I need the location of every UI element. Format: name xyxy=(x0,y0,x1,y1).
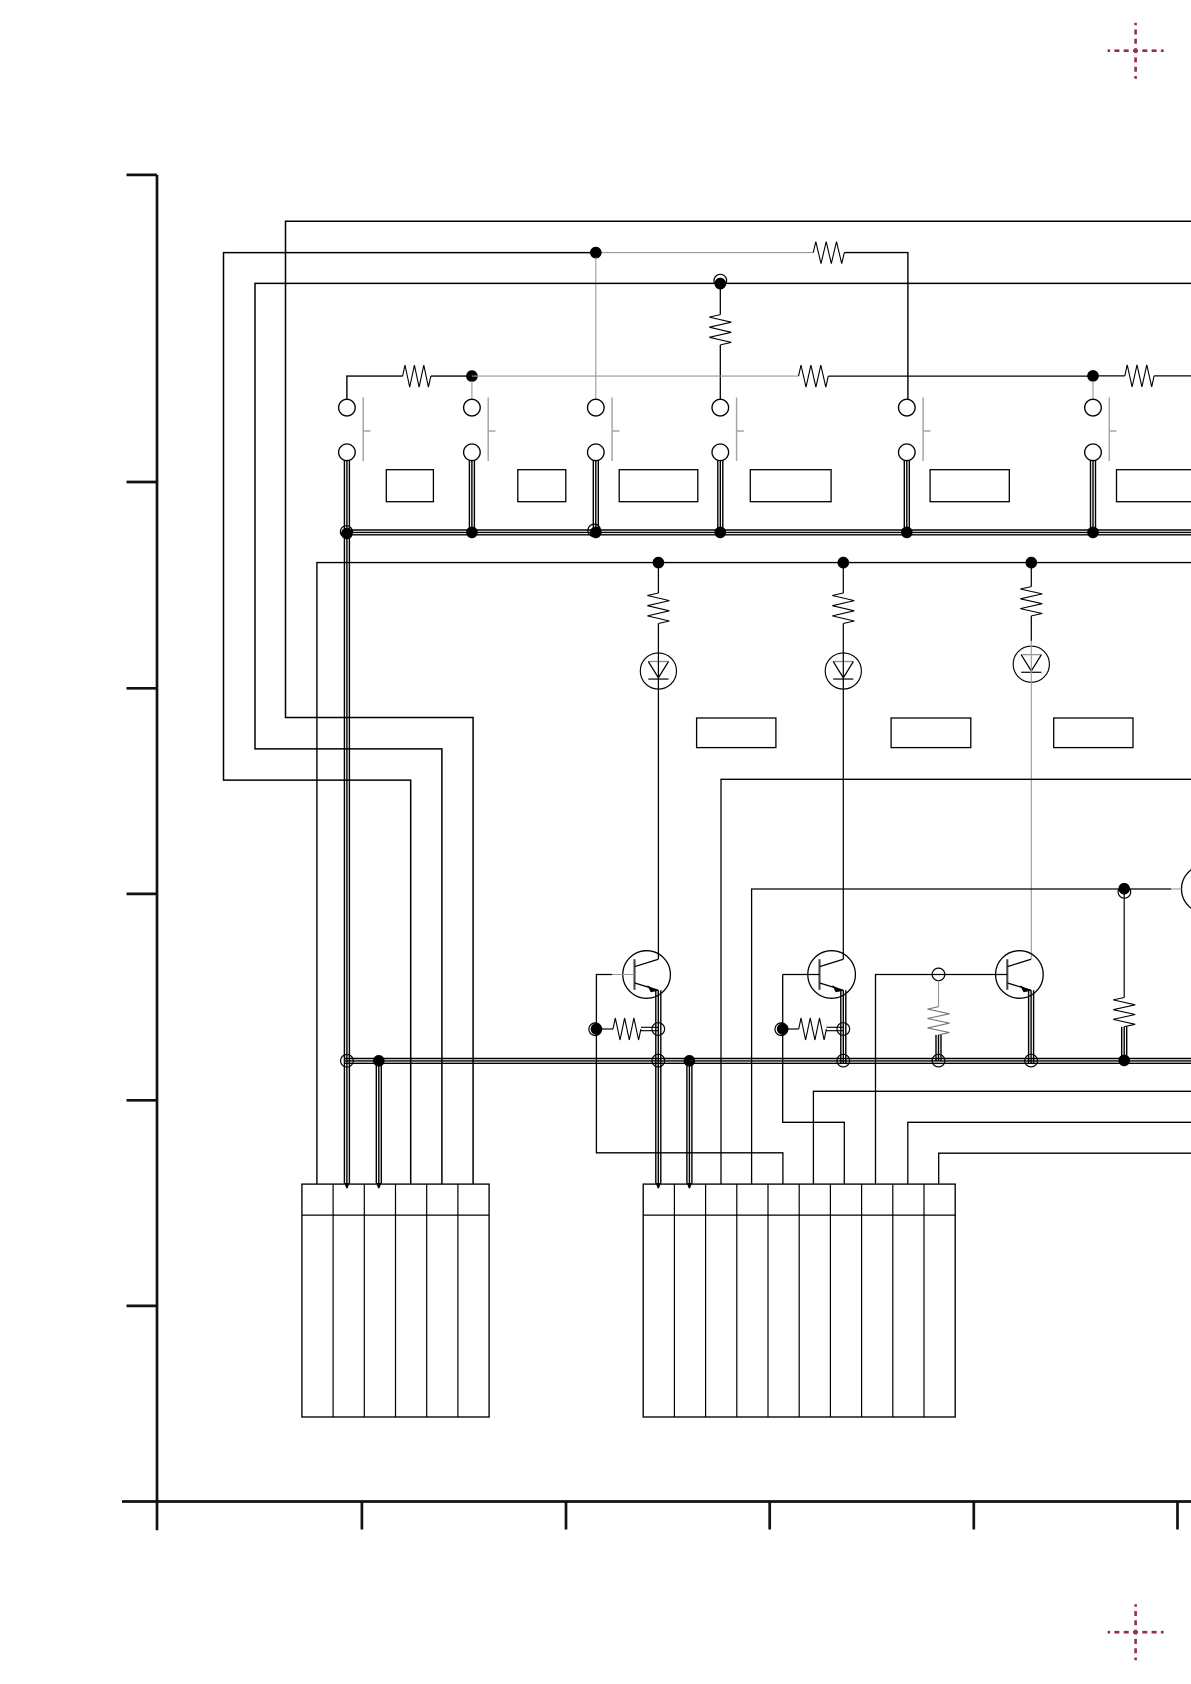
part outline box mid row 2 xyxy=(891,718,971,748)
hook CN2 pin1 wire end xyxy=(656,1183,661,1188)
wire ladder R1 to node SW2 xyxy=(431,375,472,377)
node bus / SW5 xyxy=(901,527,913,539)
wire ladder R3 to sheet edge xyxy=(1154,375,1191,377)
node junction net3 / SW4 feed xyxy=(715,278,727,290)
wire chain 1 rail to resistor xyxy=(657,563,659,593)
wire SW4 feed lower segment xyxy=(719,345,721,399)
open circle junction R13 / Q2 emitter xyxy=(837,1023,850,1036)
resistor R3 xyxy=(1125,365,1154,387)
wire ladder node to R3 xyxy=(1093,375,1125,377)
wire SW6 bottom to bus (3 lines) xyxy=(1091,461,1096,535)
node bus / SW6 xyxy=(1087,527,1099,539)
switch SW1 bottom contact xyxy=(339,444,356,461)
wire SW3 bottom to bus (3 lines) xyxy=(593,461,598,535)
switch SW2 top contact xyxy=(464,399,481,416)
transistor Q1 collector lead xyxy=(635,959,659,966)
wire net1 top rail to CN1 pin6 xyxy=(286,221,1191,1184)
node bus / SW4 xyxy=(715,527,727,539)
part outline box top row 2 xyxy=(518,470,566,502)
part outline box top row 6 xyxy=(1117,470,1191,502)
resistor R5 (SW4 feed) xyxy=(709,315,731,345)
resistor R7 (LED2 series) xyxy=(832,593,854,624)
hook CN2 pin2 wire end xyxy=(687,1183,692,1188)
transistor Q3 base bar xyxy=(1006,959,1008,990)
resistor R6 (LED1 series) xyxy=(647,593,669,624)
node Q2 base / resistor R13 xyxy=(777,1023,789,1035)
part outline box mid row 1 xyxy=(697,718,776,748)
switch SW3 bottom contact xyxy=(588,444,605,461)
transistor Q2 emitter arrow xyxy=(832,985,843,992)
transistor Q4 circle (at sheet edge) xyxy=(1182,865,1191,913)
wire CN2 pin2 drop from bus (3 lines) xyxy=(687,1061,692,1183)
part outline box top row 3 xyxy=(619,470,698,502)
open circle Q2 emitter at bus xyxy=(837,1054,850,1067)
wire Q1 base lead gray part xyxy=(612,974,634,976)
node ladder / SW2 feed xyxy=(466,370,478,382)
node ladder / SW6 feed xyxy=(1087,370,1099,382)
wire net3 rail to CN1 pin5 and SW4 feed xyxy=(255,283,1191,1184)
transistor Q1 emitter lead xyxy=(635,983,659,990)
connector CN1 (6-pin) xyxy=(302,1184,489,1417)
open circle overlapping SW4 feed node xyxy=(714,274,727,287)
switch SW6 top contact xyxy=(1085,399,1102,416)
part outline box mid row 3 xyxy=(1054,718,1133,748)
node supply rail / chain 2 xyxy=(838,557,850,569)
switch SW1 actuator xyxy=(363,398,370,462)
wire chain 3 LED cathode to Q3 collector (gray) xyxy=(1030,641,1032,959)
part outline box top row 1 xyxy=(386,470,433,502)
LED D2 xyxy=(825,653,861,689)
transistor Q1 base bar xyxy=(633,959,635,990)
wire SW2 bottom to bus (3 lines) xyxy=(469,461,474,535)
wire R12 to Q1 emitter (double line) xyxy=(641,1027,658,1030)
node bus / CN1 pin3 wire xyxy=(373,1055,385,1067)
open circle overlap at Q4 base node xyxy=(1118,886,1131,899)
wire Q3 emitter to bus (3 lines) xyxy=(1029,990,1034,1063)
node bus / SW2 xyxy=(466,527,478,539)
transistor Q3 emitter lead xyxy=(1008,983,1032,990)
open circle junction R12 / Q1 emitter xyxy=(652,1023,665,1036)
wire net to CN2 pin10 xyxy=(939,1153,1191,1184)
resistor R4 xyxy=(813,242,844,264)
bus switch-common horizontal (3 lines) xyxy=(344,530,1191,535)
wire net2 gray segment from node to resistor R4 xyxy=(601,252,813,254)
resistor R1 xyxy=(403,365,431,387)
transistor Q2 base bar xyxy=(818,959,820,990)
wire net to CN2 pin9 xyxy=(908,1122,1191,1184)
wire SW2 feed stub (gray) xyxy=(471,381,473,399)
transistor Q3 circle xyxy=(996,951,1044,999)
LED D3 xyxy=(1013,646,1049,682)
transistor Q2 collector lead xyxy=(820,959,844,966)
wire SW1 top to resistor R1 xyxy=(347,376,403,399)
switch SW6 bottom contact xyxy=(1085,444,1102,461)
switch SW5 bottom contact xyxy=(899,444,916,461)
resistor R15 (Q4 base-emitter) xyxy=(1113,998,1135,1027)
wire R13 to Q2 emitter (double line) xyxy=(826,1027,843,1030)
sheet border left edge with ruler ticks xyxy=(127,175,158,1530)
wire SW1 bottom to bus to CN1 pin2 (3 lines) xyxy=(344,461,349,1184)
switch SW1 top contact xyxy=(339,399,356,416)
wire Q1 emitter to CN2 pin1 (3 lines) xyxy=(656,990,661,1183)
wire SW3 feed vertical (gray) xyxy=(595,258,597,400)
wire Q2 base lead xyxy=(783,974,820,976)
wire net to CN2 pin3 xyxy=(721,779,1191,1184)
hook CN1 pin3 wire end xyxy=(376,1183,381,1188)
wire CN1 pin3 drop from bus (3 lines) xyxy=(376,1059,381,1184)
wire net to CN2 pin6 xyxy=(813,1091,1191,1184)
wire R13 left lead xyxy=(788,1028,799,1030)
switch SW3 top contact xyxy=(588,399,605,416)
open circle tap on Q3 base wire xyxy=(932,968,945,981)
node supply rail / chain 3 xyxy=(1026,557,1038,569)
switch SW3 actuator xyxy=(612,398,619,462)
open circle bus left end xyxy=(341,1055,354,1068)
wire R15 to bus (3 lines) xyxy=(1122,1027,1127,1061)
wire Q4 base lead gray part xyxy=(1171,888,1182,890)
node Q1 base / resistor R12 xyxy=(591,1023,603,1035)
open circle overlap at SW3 bus node xyxy=(588,524,601,537)
transistor Q1 circle xyxy=(623,951,671,999)
wire chain 1 resistor through LED to Q1 collector xyxy=(657,624,659,960)
wire SW6 feed stub (gray) xyxy=(1092,381,1094,399)
bus emitter-common horizontal (3 lines) xyxy=(344,1059,1191,1064)
LED D1 xyxy=(640,653,676,689)
transistor Q3 emitter arrow xyxy=(1020,985,1031,992)
wire chain 2 rail to resistor xyxy=(842,563,844,593)
open circle R14 at emitter bus xyxy=(932,1054,945,1067)
open circle overlap at SW1 bus node xyxy=(340,526,352,538)
wire net Q4 base rail to CN2 pin4 xyxy=(752,889,1171,1184)
wire chain 2 resistor through LED to Q2 collector xyxy=(842,624,844,960)
switch SW6 actuator xyxy=(1109,398,1116,462)
wire Q2 emitter to bus (3 lines) xyxy=(841,990,846,1063)
open circle overlap at Q2 base node xyxy=(775,1023,788,1036)
node bus / CN2 pin2 wire xyxy=(684,1055,696,1067)
registration mark bottom right xyxy=(1108,1604,1164,1660)
switch SW4 top contact xyxy=(712,399,729,416)
transistor Q2 emitter lead xyxy=(820,983,844,990)
resistor R14 (Q3 base pulldown) xyxy=(928,1007,950,1035)
wire R12 left lead xyxy=(602,1028,613,1030)
wire net2 rail segment to CN1 pin4 and switch SW3/SW5 feed xyxy=(224,253,596,1185)
open circle Q1 emitter at bus xyxy=(652,1054,665,1067)
node Q4 base / resistor R15 xyxy=(1118,883,1130,895)
node supply rail / chain 1 xyxy=(653,557,665,569)
wire R14 to bus (3 lines) xyxy=(936,1035,941,1062)
wire Q1 base route to CN2 pin5 xyxy=(596,975,783,1185)
wire ladder gray segment to R2 xyxy=(472,375,799,377)
open circle overlap at Q1 base node xyxy=(589,1023,602,1036)
wire SW5 bottom to bus (3 lines) xyxy=(904,461,909,535)
wire LED supply rail to CN1 pin1 xyxy=(317,563,1191,1185)
sheet border bottom edge with ruler ticks xyxy=(122,1502,1191,1530)
switch SW4 bottom contact xyxy=(712,444,729,461)
resistor R8 (LED3 series) xyxy=(1020,587,1042,616)
transistor Q2 circle xyxy=(808,951,856,999)
transistor Q3 collector lead xyxy=(1008,959,1032,966)
connector CN2 (10-pin) xyxy=(643,1184,955,1417)
switch SW5 top contact xyxy=(899,399,916,416)
switch SW4 actuator xyxy=(737,398,744,462)
wire ladder R2 to node SW6 xyxy=(828,375,1093,377)
node bus / SW3 xyxy=(590,527,602,539)
registration mark top right xyxy=(1108,23,1164,79)
hook CN1 pin2 wire end xyxy=(344,1183,349,1188)
switch SW5 actuator xyxy=(923,398,930,462)
wire tap to resistor R14 (gray) xyxy=(938,981,940,1007)
wire Q2 base route to CN2 pin7 xyxy=(783,975,845,1185)
part outline box top row 5 xyxy=(930,470,1009,502)
open circle Q3 emitter at bus xyxy=(1025,1054,1038,1067)
wire SW4 feed upper segment xyxy=(719,289,721,315)
switch SW2 bottom contact xyxy=(464,444,481,461)
node bus / R15 wire xyxy=(1118,1055,1130,1067)
wire Q4 base node to R15 xyxy=(1123,894,1125,998)
wire Q3 base route to CN2 pin8 xyxy=(876,975,1008,1185)
resistor R13 (Q2 base-emitter) xyxy=(799,1018,827,1040)
node bus / SW1 xyxy=(341,528,353,540)
wire SW4 bottom to bus (3 lines) xyxy=(718,461,723,535)
wire net2 from R4 to switch SW5 top xyxy=(844,253,908,400)
part outline box top row 4 xyxy=(750,470,831,502)
switch SW2 actuator xyxy=(488,398,495,462)
node junction net2 / SW3 feed xyxy=(590,247,602,259)
transistor Q1 emitter arrow xyxy=(647,985,658,992)
resistor R12 (Q1 base-emitter) xyxy=(613,1018,641,1040)
wire chain 3 rail to resistor xyxy=(1030,563,1032,587)
wire chain 3 resistor to LED xyxy=(1030,616,1032,641)
resistor R2 xyxy=(799,365,829,387)
